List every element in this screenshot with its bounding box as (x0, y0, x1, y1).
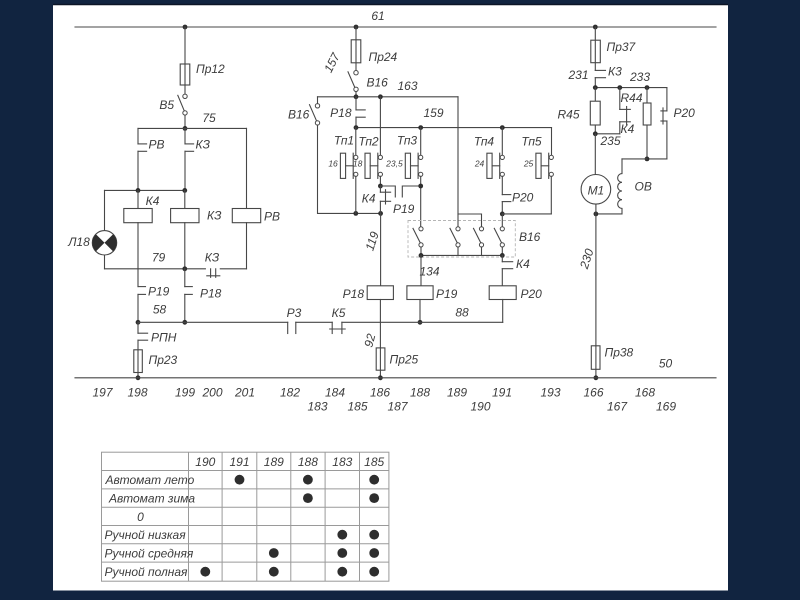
switch SW2 of В16 (450, 214, 460, 255)
svg-text:R45: R45 (558, 108, 580, 122)
svg-text:16: 16 (328, 159, 338, 169)
fuse Пр24 (351, 40, 397, 64)
svg-text:ОВ: ОВ (635, 180, 652, 194)
svg-text:200: 200 (201, 386, 222, 400)
svg-text:В16: В16 (367, 76, 389, 90)
node 58 (136, 303, 188, 325)
svg-text:0: 0 (137, 510, 144, 524)
node 61 label (371, 9, 384, 23)
wire junction line above coils (105, 188, 188, 193)
fuse Пр23 (134, 340, 178, 380)
svg-text:РВ: РВ (149, 138, 165, 152)
thermal contact Тп1 (328, 128, 358, 214)
svg-text:КЗ: КЗ (207, 209, 222, 223)
svg-text:Р19: Р19 (436, 287, 458, 301)
svg-text:Ручной полная: Ручной полная (105, 565, 189, 579)
wire 119 (363, 213, 382, 285)
svg-text:198: 198 (127, 386, 147, 400)
svg-text:163: 163 (398, 79, 418, 93)
thermal contact Тп5 (521, 128, 553, 214)
svg-text:185: 185 (364, 455, 384, 469)
switch SW4 of В16 (494, 227, 504, 256)
contact Р18 (185, 269, 222, 323)
svg-text:193: 193 (540, 386, 560, 400)
wire fuse drop from bus to B5 (184, 27, 186, 95)
svg-text:25: 25 (523, 159, 534, 169)
contact Р19 (middle hook) (393, 184, 423, 216)
svg-text:201: 201 (234, 386, 255, 400)
contact К3 horizontal (205, 251, 220, 278)
svg-text:РВ: РВ (264, 210, 280, 224)
svg-text:Р18: Р18 (330, 106, 352, 120)
svg-text:К5: К5 (332, 306, 346, 320)
svg-text:Пр38: Пр38 (605, 346, 634, 360)
svg-text:В5: В5 (159, 98, 174, 112)
wire top parallel bus (593, 85, 667, 90)
contact Р19 (138, 269, 170, 323)
relay coil РВ (232, 128, 280, 268)
node Тп4/Тп5 join (500, 212, 551, 227)
node 231 label (567, 68, 588, 82)
contact К3 (right) (595, 65, 622, 88)
table grid (102, 452, 389, 581)
contact РВ (138, 128, 165, 190)
wire R44/Р20 bottom join (645, 157, 667, 162)
svg-text:24: 24 (474, 159, 485, 169)
wire drop to fuse Пр24 (355, 27, 357, 71)
svg-text:187: 187 (387, 400, 408, 414)
svg-text:К4: К4 (516, 257, 530, 271)
svg-text:Тп5: Тп5 (521, 135, 542, 149)
contact К4 (middle) (362, 186, 396, 213)
thermal contact Тп3 (385, 128, 423, 227)
svg-text:В16: В16 (519, 230, 541, 244)
svg-text:Тп1: Тп1 (334, 134, 354, 148)
node 92 label (361, 332, 378, 349)
svg-text:М1: М1 (588, 184, 605, 198)
svg-text:166: 166 (583, 386, 603, 400)
resistor R44 (643, 88, 651, 159)
svg-text:190: 190 (195, 455, 215, 469)
svg-text:R44: R44 (621, 91, 643, 105)
contact Р20 (under Тп4) (502, 191, 533, 214)
svg-text:Р19: Р19 (393, 202, 415, 216)
svg-text:Тп4: Тп4 (474, 135, 495, 149)
svg-text:Ручной средняя: Ручной средняя (105, 546, 194, 560)
svg-text:134: 134 (419, 265, 439, 279)
contact Р18 (middle) (330, 97, 365, 128)
table dots row Автомат лето (235, 475, 380, 485)
fuse Пр25 (376, 348, 418, 380)
contact К3 (branch of node 75) (185, 128, 211, 190)
svg-text:88: 88 (455, 306, 469, 320)
svg-text:159: 159 (423, 106, 443, 120)
node 75 (183, 111, 216, 131)
svg-text:183: 183 (307, 400, 327, 414)
svg-text:79: 79 (152, 251, 166, 265)
switch В16 (main) (348, 71, 388, 97)
table dots row Ручной низкая (337, 530, 379, 540)
svg-text:Л18: Л18 (67, 235, 90, 249)
svg-text:23,5: 23,5 (385, 159, 403, 169)
relay coil Р18 (343, 286, 394, 348)
svg-text:Р20: Р20 (521, 287, 543, 301)
node 163 bus (318, 79, 459, 99)
svg-text:189: 189 (264, 455, 284, 469)
svg-text:Пр23: Пр23 (149, 353, 178, 367)
node 134 wire to Р19 coil (419, 255, 439, 285)
wire 230 (577, 204, 597, 346)
field winding ОВ (596, 159, 652, 214)
svg-text:231: 231 (567, 68, 588, 82)
svg-text:183: 183 (332, 455, 352, 469)
svg-text:189: 189 (447, 386, 467, 400)
bottom bus node labels row 2 (307, 400, 676, 414)
wire node75 horizontal (138, 127, 247, 129)
node 50 label (659, 357, 673, 371)
svg-text:182: 182 (280, 386, 300, 400)
relay coil Р19 (407, 286, 458, 325)
svg-text:Тп2: Тп2 (358, 135, 379, 149)
svg-text:К4: К4 (621, 122, 635, 136)
svg-text:Пр25: Пр25 (390, 353, 419, 367)
motor М1 (581, 134, 611, 217)
wire left branch down and over (318, 125, 384, 216)
selector switch В16 dashed box (408, 221, 541, 258)
resistor R45 (558, 88, 601, 134)
svg-text:Пр12: Пр12 (196, 62, 225, 76)
svg-text:235: 235 (599, 134, 620, 148)
switch SW3 of В16 (474, 227, 484, 256)
svg-text:58: 58 (153, 303, 167, 317)
svg-text:Р3: Р3 (287, 306, 302, 320)
relay coil Р20 (489, 286, 542, 323)
fuse Пр12 (180, 62, 225, 85)
svg-text:75: 75 (202, 111, 216, 125)
svg-text:В16: В16 (288, 108, 310, 122)
svg-text:18: 18 (353, 159, 363, 169)
svg-text:Р20: Р20 (674, 106, 696, 120)
svg-text:50: 50 (659, 357, 673, 371)
thermal contact Тп2 (353, 97, 383, 186)
contact К4 (right, bypass) (620, 88, 643, 136)
relay coil К4 (124, 190, 160, 268)
svg-text:Р20: Р20 (512, 191, 534, 205)
node 157 label (321, 49, 343, 74)
svg-text:169: 169 (656, 400, 676, 414)
table dots row Ручной средняя (269, 548, 379, 558)
svg-text:184: 184 (325, 386, 345, 400)
svg-text:186: 186 (370, 386, 390, 400)
table dots row Автомат зима (303, 493, 379, 503)
contact К5 (330, 306, 346, 334)
svg-text:168: 168 (635, 386, 655, 400)
contact К4 (above Р20 coil) (502, 255, 530, 285)
lamp Л18 (67, 190, 116, 268)
wire node 58-88 line (138, 306, 503, 323)
switch SW1 of В16 (413, 227, 423, 256)
svg-text:191: 191 (229, 455, 249, 469)
svg-text:188: 188 (298, 455, 318, 469)
svg-text:Автомат лето: Автомат лето (105, 473, 195, 487)
svg-text:РПН: РПН (151, 331, 177, 345)
node 159 bus (354, 106, 552, 130)
svg-text:КЗ: КЗ (196, 138, 211, 152)
svg-text:61: 61 (371, 9, 384, 23)
svg-text:Пр24: Пр24 (369, 50, 398, 64)
bottom bus node labels row 1 (92, 386, 655, 400)
svg-text:199: 199 (175, 386, 195, 400)
svg-text:190: 190 (470, 400, 490, 414)
wire bottom bus (75, 377, 716, 379)
svg-text:197: 197 (92, 386, 113, 400)
table dots row Ручной полная (200, 567, 379, 577)
wire drop to fuse Пр37 (594, 27, 596, 70)
contact Р20 (right) (661, 88, 695, 159)
svg-text:К3: К3 (608, 65, 622, 79)
fuse Пр37 (591, 40, 637, 63)
svg-text:233: 233 (629, 70, 650, 84)
node Тп2 bottom (378, 184, 383, 189)
node 233 label (629, 70, 650, 84)
wire top bus 61 (75, 25, 716, 30)
svg-text:Пр37: Пр37 (607, 40, 637, 54)
svg-text:188: 188 (410, 386, 430, 400)
contact РПН (138, 322, 177, 344)
svg-text:Тп3: Тп3 (397, 134, 418, 148)
fuse Пр38 (591, 346, 633, 381)
svg-text:Р18: Р18 (200, 287, 222, 301)
contact Р3 (287, 306, 302, 334)
svg-text:КЗ: КЗ (205, 251, 220, 265)
svg-text:191: 191 (492, 386, 512, 400)
svg-text:185: 185 (347, 400, 367, 414)
wire right drop from 163 bus (458, 97, 482, 227)
relay coil К3 (171, 190, 222, 268)
table row labels (105, 473, 196, 579)
svg-text:К4: К4 (362, 192, 376, 206)
wire selector bottom join (419, 253, 505, 258)
svg-text:Автомат зима: Автомат зима (108, 492, 195, 506)
switch В16 (left) (288, 97, 320, 125)
svg-text:Ручной низкая: Ручной низкая (105, 528, 187, 542)
thermal contact Тп4 (474, 128, 505, 195)
svg-text:К4: К4 (146, 194, 160, 208)
table header row (195, 455, 384, 469)
node 235 (593, 131, 621, 148)
svg-text:167: 167 (607, 400, 628, 414)
svg-text:Р18: Р18 (343, 287, 365, 301)
wire node 79 line (105, 251, 247, 272)
svg-text:Р19: Р19 (148, 285, 170, 299)
switch B5 (159, 94, 187, 128)
